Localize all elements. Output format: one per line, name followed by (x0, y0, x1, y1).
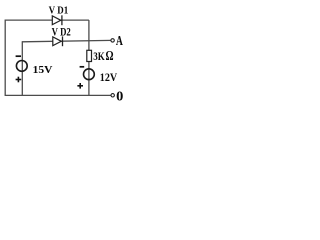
wire left vertical (4, 20, 6, 96)
terminal node A (open circle) (111, 39, 114, 42)
resistor R (87, 50, 92, 61)
wire 15V branch vertical (21, 41, 23, 95)
polarity minus 15V (16, 55, 21, 57)
svg-text:12V: 12V (100, 72, 118, 84)
polarity plus 15V (16, 77, 22, 83)
polarity minus 12V (80, 66, 85, 68)
wire bottom rail (5, 94, 112, 96)
wire right vertical (through resistor and 12V source) (88, 20, 90, 95)
battery source 15V (circle) (16, 61, 27, 72)
svg-text:V D1: V D1 (49, 4, 69, 16)
battery source 12V (circle) (84, 69, 95, 80)
diode VD2 (53, 36, 63, 46)
diode VD1 (52, 15, 62, 25)
wire middle branch (VD2 rail to node A) (22, 40, 111, 41)
svg-text:V D2: V D2 (52, 27, 72, 39)
svg-text:0: 0 (116, 89, 123, 104)
svg-text:15V: 15V (33, 64, 53, 76)
svg-text:3K Ω: 3K Ω (93, 48, 114, 63)
polarity plus 12V (77, 83, 83, 89)
svg-text:A: A (116, 33, 123, 48)
terminal node 0 (open circle) (111, 94, 114, 97)
wire top branch (VD1 anode-cathode rail) (5, 19, 89, 21)
